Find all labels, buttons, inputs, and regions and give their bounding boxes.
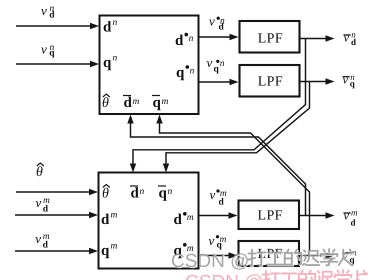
wire: U2 d*m output to LPF3 (199, 215, 231, 217)
svg-text:v: v (41, 3, 47, 18)
block LPF4 (239, 241, 300, 266)
arrowhead into LPF2 (230, 79, 239, 85)
svg-text:m: m (162, 97, 169, 107)
label v_d^m input 2 (35, 231, 50, 251)
arrowhead output vbar_d^n (326, 35, 335, 41)
block U2: bottom transformation block (99, 173, 199, 269)
wire: feedback n-side d (LPF1 out down to bottom block dbar^n) (133, 39, 306, 167)
wire: input v_d^m (2) into bottom block (15, 250, 91, 252)
svg-text:LPF: LPF (258, 75, 283, 90)
label qbar^m inside U1 (152, 95, 169, 111)
svg-text:n: n (140, 187, 145, 197)
arrowhead up into U1 qbar^m (156, 115, 162, 124)
arrowhead down into U2 dbar^n (130, 164, 136, 173)
svg-text:q: q (153, 95, 162, 111)
arrowhead into LPF4 (229, 252, 238, 258)
label q^*n inside U1 (176, 65, 195, 81)
svg-text:v: v (210, 187, 216, 202)
arrowhead into U1 q^n (90, 61, 99, 67)
block U1: top transformation block (100, 16, 199, 115)
wire: input v_d^n into top block (16, 25, 92, 27)
arrowhead into U2 d^m (89, 212, 98, 218)
wire: feedback m-side d (LPF3 out up to top block dbar^m) (131, 121, 306, 216)
wire: U1 q*n output to LPF2 (199, 81, 232, 83)
block LPF2 (240, 65, 300, 97)
arrowhead into U2 q^m (89, 248, 98, 254)
svg-text:m: m (351, 208, 358, 218)
svg-text:d: d (131, 186, 140, 202)
label q^*m inside U2 (174, 243, 194, 259)
svg-text:n: n (351, 30, 356, 40)
svg-text:m: m (43, 232, 50, 242)
svg-text:d: d (351, 218, 356, 228)
svg-text:m: m (187, 213, 194, 223)
block LPF1 (240, 21, 300, 53)
svg-text:v: v (207, 55, 213, 70)
label theta-hat inside U2 (102, 185, 110, 202)
svg-text:v: v (343, 72, 349, 86)
arrowhead into U2 theta (89, 189, 98, 195)
svg-text:d: d (101, 212, 110, 228)
svg-text:d: d (174, 212, 183, 228)
svg-text:n: n (220, 59, 225, 69)
label vbar_q^m output (343, 247, 358, 264)
svg-text:LPF: LPF (258, 31, 283, 46)
svg-text:θ: θ (102, 187, 109, 202)
svg-text:n: n (50, 43, 55, 53)
watermark CSDN gray (172, 250, 354, 273)
wire: feedback n-side q (LPF2 out down to bottom block qbar^n) (166, 82, 310, 167)
label v_d^n input (41, 3, 55, 21)
label v_d^*n between U1 and LPF1 (209, 13, 225, 32)
svg-text:d: d (175, 33, 184, 49)
label v_q^n input (41, 42, 55, 59)
arrowhead into LPF1 (230, 34, 239, 40)
label vbar_q^n output (343, 72, 356, 89)
svg-text:q: q (176, 65, 185, 81)
svg-text:m: m (111, 242, 118, 252)
label vbar_d^n output (344, 30, 357, 48)
svg-text:n: n (189, 34, 194, 44)
svg-text:q: q (159, 186, 168, 202)
wire: input theta-hat into bottom block (16, 191, 91, 193)
svg-text:θ: θ (36, 165, 43, 180)
arrowhead output vbar_d^m (326, 212, 335, 218)
watermark CSDN pink (185, 270, 367, 280)
wire: LPF3 output to vbar_d^m (299, 215, 327, 217)
svg-text:m: m (133, 97, 140, 107)
label dbar^m inside U1 (123, 95, 140, 111)
wire: LPF1 output to vbar_d^n (300, 38, 327, 40)
wire: U1 d*n output to LPF1 (199, 36, 232, 38)
label v_d^m input 1 (36, 195, 51, 215)
label theta-hat input (36, 163, 44, 180)
label v_q^*n between U1 and LPF2 (207, 55, 225, 75)
label d^m inside U2 (101, 211, 118, 229)
wire: input v_d^m (1) into bottom block (15, 214, 91, 216)
label v_q^*m between U2 and LPF4 (209, 233, 227, 250)
svg-text:LPF: LPF (258, 209, 283, 224)
svg-text:q: q (101, 243, 110, 259)
wire: input v_q^n into top block (16, 63, 92, 65)
label q^n inside U1 (103, 54, 118, 72)
svg-text:d: d (103, 20, 112, 36)
label v_d^*m between U2 and LPF3 (210, 187, 227, 208)
svg-text:n: n (190, 66, 195, 76)
arrowhead into LPF3 (229, 212, 238, 218)
arrowhead output vbar_q^m (326, 252, 335, 258)
svg-text:n: n (220, 17, 225, 27)
svg-text:v: v (36, 195, 42, 210)
arrowhead up into U1 dbar^m (127, 115, 133, 124)
svg-text:q: q (103, 55, 112, 71)
arrowhead down into U2 qbar^n (163, 164, 169, 173)
svg-text:n: n (50, 4, 55, 14)
svg-text:n: n (113, 18, 118, 28)
svg-text:q: q (214, 65, 220, 75)
svg-text:m: m (111, 211, 118, 221)
wire: feedback m-side q (LPF4 out up to top block qbar^m) (160, 121, 310, 256)
label q^m inside U2 (101, 242, 118, 260)
label vbar_d^m output (344, 208, 359, 228)
wire: LPF2 output to vbar_q^n (300, 81, 327, 83)
svg-text:v: v (344, 209, 350, 223)
label d^*m inside U2 (174, 212, 194, 228)
svg-text:v: v (41, 42, 47, 57)
block LPF3 (239, 201, 300, 230)
svg-text:m: m (43, 196, 50, 206)
label d^n inside U1 (103, 18, 118, 36)
arrowhead output vbar_q^n (326, 78, 335, 84)
svg-text:v: v (209, 13, 215, 28)
svg-text:n: n (168, 187, 173, 197)
svg-text:m: m (220, 189, 227, 199)
label qbar^n inside U2 (158, 186, 173, 202)
svg-text:d: d (124, 95, 133, 111)
svg-text:m: m (220, 235, 227, 245)
svg-text:d: d (219, 198, 225, 208)
svg-text:n: n (350, 72, 355, 82)
label dbar^n inside U2 (130, 186, 145, 202)
arrowhead into U1 d^n (90, 23, 99, 29)
svg-text:θ: θ (102, 96, 109, 111)
wire: LPF4 output to vbar_q^m (299, 255, 327, 257)
wire: U2 q*m output to LPF4 (199, 255, 231, 257)
svg-text:n: n (113, 54, 118, 64)
label d^*n inside U1 (175, 33, 194, 49)
label theta-hat inside U1 (102, 94, 110, 111)
svg-text:v: v (209, 233, 215, 248)
svg-text:v: v (35, 231, 41, 246)
svg-text:v: v (344, 31, 350, 45)
